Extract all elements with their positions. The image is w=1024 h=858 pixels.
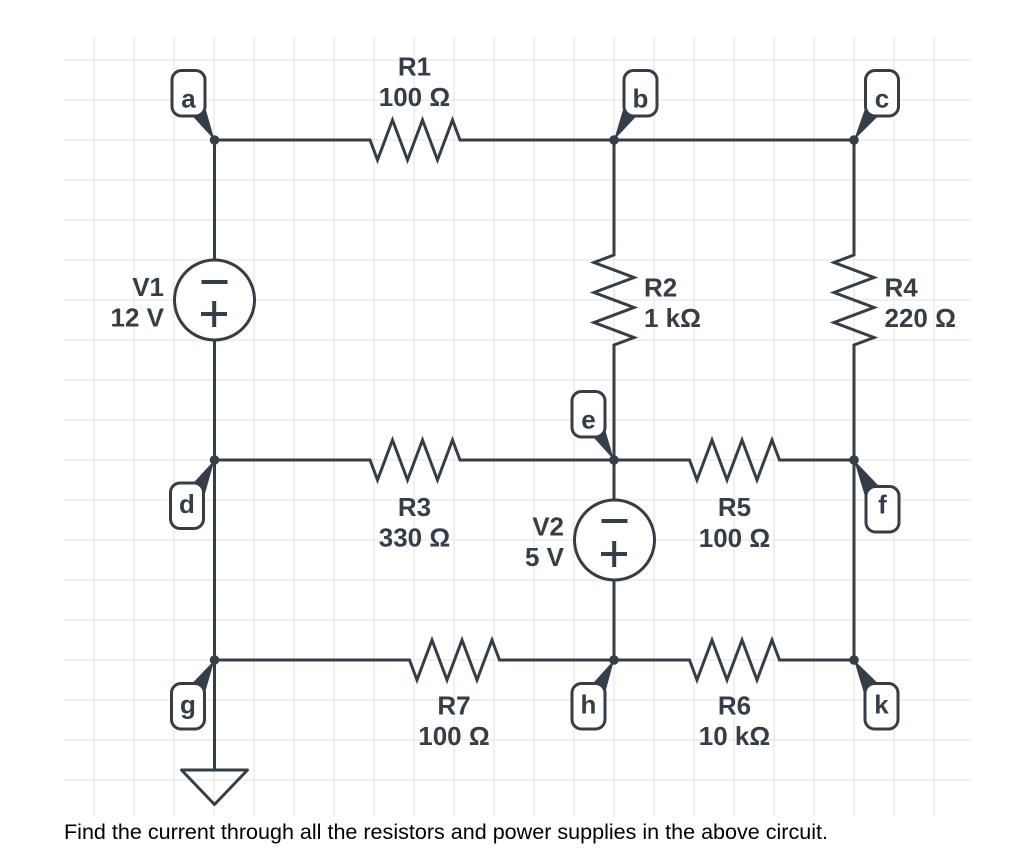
node e label callout	[572, 392, 614, 461]
node a label callout	[172, 71, 215, 141]
svg-text:330 Ω: 330 Ω	[379, 523, 450, 553]
node d junction dot	[210, 455, 220, 465]
wire: node e to node f through R5	[614, 440, 854, 480]
wire: node c to node f through R4	[834, 140, 874, 460]
svg-text:R3: R3	[398, 492, 431, 522]
svg-text:h: h	[581, 690, 597, 720]
label V2 value	[525, 512, 565, 573]
wire: node a down through V1 to node d	[213, 140, 216, 460]
node d label callout	[171, 460, 215, 529]
label R2 value	[644, 272, 701, 333]
svg-text:5 V: 5 V	[525, 542, 565, 572]
svg-text:V1: V1	[132, 272, 164, 302]
svg-text:100 Ω: 100 Ω	[379, 82, 450, 112]
wire: node h to node k through R6	[614, 640, 854, 680]
wire: node b to node e through R2	[594, 140, 634, 460]
wire: node g down to ground	[213, 660, 216, 771]
label V1 value	[111, 272, 165, 333]
node h label callout	[572, 660, 614, 729]
svg-text:R2: R2	[644, 272, 677, 302]
node f junction dot	[849, 455, 859, 465]
wire: node f to node k	[853, 460, 856, 660]
svg-text:k: k	[874, 690, 889, 720]
wire: node a to node b through R1	[215, 120, 615, 160]
wire: node d to node e through R3	[215, 440, 615, 480]
node c junction dot	[849, 135, 859, 145]
node g junction dot	[210, 655, 220, 665]
svg-text:12 V: 12 V	[111, 303, 165, 333]
svg-text:1 kΩ: 1 kΩ	[644, 303, 701, 333]
svg-text:a: a	[181, 84, 196, 114]
wire: node e down through V2 to node h	[613, 460, 616, 660]
svg-text:R5: R5	[718, 492, 751, 522]
ground	[182, 770, 248, 805]
svg-text:R1: R1	[398, 51, 431, 81]
voltage source V2	[575, 500, 655, 580]
label R1 value	[379, 51, 450, 112]
svg-text:R7: R7	[437, 690, 470, 720]
node h junction dot	[609, 655, 619, 665]
svg-text:b: b	[633, 84, 649, 114]
svg-text:V2: V2	[532, 512, 564, 542]
svg-text:100 Ω: 100 Ω	[418, 721, 489, 751]
label R4 value	[885, 272, 956, 333]
node k junction dot	[849, 655, 859, 665]
wire: node g to node h through R7	[215, 640, 615, 680]
node e junction dot	[609, 455, 619, 465]
node c label callout	[854, 71, 899, 141]
svg-text:100 Ω: 100 Ω	[699, 523, 770, 553]
label R3 value	[379, 492, 450, 553]
label R7 value	[418, 690, 489, 751]
wire: node d to node g	[213, 460, 216, 660]
wire: node b to node c	[614, 139, 854, 142]
svg-text:g: g	[180, 690, 196, 720]
voltage source V1	[175, 260, 255, 340]
svg-text:Find the current through all t: Find the current through all the resisto…	[64, 821, 828, 844]
svg-text:R4: R4	[885, 272, 919, 302]
node g label callout	[172, 660, 215, 729]
svg-text:e: e	[581, 405, 595, 435]
node f label callout	[854, 460, 899, 532]
svg-text:d: d	[179, 489, 195, 519]
node b junction dot	[609, 135, 619, 145]
svg-text:R6: R6	[718, 690, 751, 720]
svg-text:f: f	[878, 490, 887, 520]
label R5 value	[699, 492, 770, 553]
svg-text:10 kΩ: 10 kΩ	[699, 721, 770, 751]
svg-text:220 Ω: 220 Ω	[885, 303, 956, 333]
node k label callout	[854, 660, 898, 729]
node a junction dot	[210, 135, 220, 145]
node b label callout	[614, 71, 657, 141]
svg-text:c: c	[875, 84, 889, 114]
label R6 value	[699, 690, 770, 751]
